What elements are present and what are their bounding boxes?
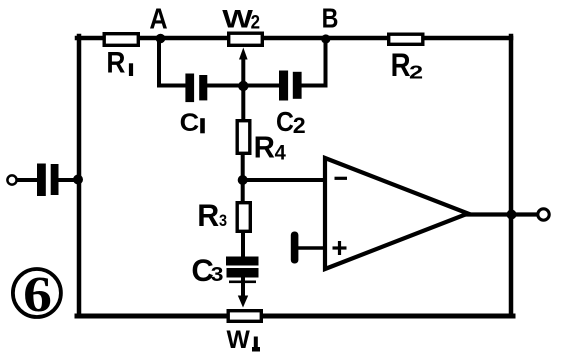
svg-text:2: 2 xyxy=(293,112,306,137)
svg-text:3: 3 xyxy=(211,262,224,286)
svg-text:W: W xyxy=(222,6,253,34)
svg-text:C: C xyxy=(180,108,200,137)
svg-text:6: 6 xyxy=(23,267,52,323)
svg-text:2: 2 xyxy=(409,61,423,82)
svg-text:W: W xyxy=(227,327,251,354)
svg-text:C: C xyxy=(276,106,294,138)
svg-text:2: 2 xyxy=(251,11,260,32)
svg-text:R: R xyxy=(254,131,275,165)
svg-text:A: A xyxy=(149,3,167,35)
svg-text:R: R xyxy=(106,46,125,79)
svg-text:4: 4 xyxy=(275,141,287,165)
svg-text:B: B xyxy=(322,4,339,34)
svg-text:R: R xyxy=(391,48,411,83)
svg-text:3: 3 xyxy=(219,212,227,230)
svg-text:R: R xyxy=(197,198,219,234)
